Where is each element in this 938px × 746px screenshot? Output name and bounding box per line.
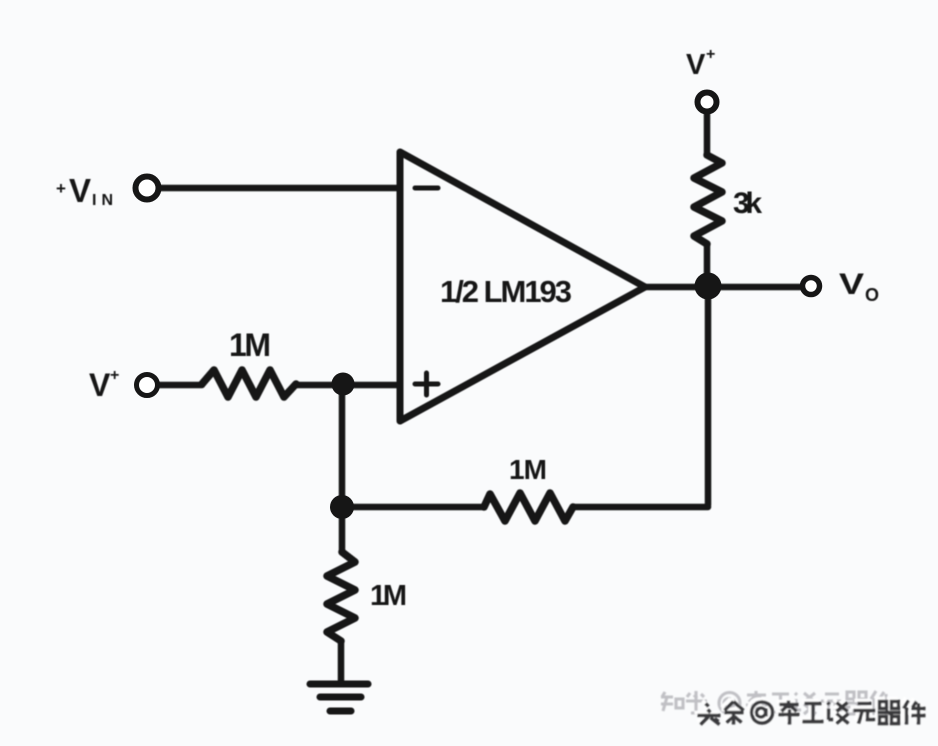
svg-text:1M: 1M (370, 580, 407, 612)
svg-text:+: + (706, 46, 715, 63)
svg-text:V: V (69, 172, 91, 209)
svg-text:+: + (56, 179, 66, 198)
svg-text:V: V (686, 49, 706, 81)
svg-text:1M: 1M (229, 327, 271, 363)
svg-text:V: V (89, 367, 111, 403)
svg-text:1/2 LM193: 1/2 LM193 (440, 274, 572, 309)
svg-text:IN: IN (92, 192, 113, 209)
svg-text:1M: 1M (509, 454, 547, 485)
svg-text:O: O (865, 285, 879, 305)
svg-text:V: V (839, 268, 864, 301)
svg-text:3k: 3k (733, 187, 762, 220)
svg-text:+: + (110, 367, 119, 384)
